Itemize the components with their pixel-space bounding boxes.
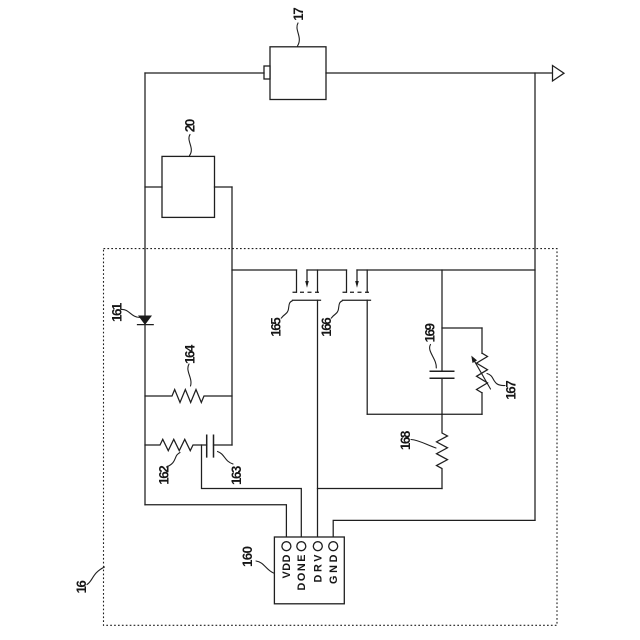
left rail bbox=[144, 73, 146, 505]
box 17 bbox=[264, 47, 326, 100]
svg-text:168: 168 bbox=[398, 430, 413, 450]
svg-text:161: 161 bbox=[109, 302, 124, 322]
label 161 bbox=[109, 302, 140, 322]
wire parallel top bbox=[442, 327, 482, 329]
bus wire segment C bbox=[357, 269, 535, 271]
svg-text:160: 160 bbox=[240, 546, 255, 567]
bus wire segment A bbox=[232, 269, 297, 271]
resistor 162 bbox=[145, 439, 207, 450]
transistor 165 bbox=[293, 270, 321, 300]
IC 160 box bbox=[274, 537, 344, 604]
pin label GND bbox=[328, 554, 340, 584]
label 162 bbox=[156, 453, 180, 485]
wire gate 166 down bbox=[366, 300, 368, 414]
pin label VDD bbox=[281, 554, 293, 578]
wire box 20 right bbox=[215, 186, 233, 188]
svg-text:DRV: DRV bbox=[313, 554, 325, 583]
diode 161 bbox=[138, 316, 154, 325]
label 167 bbox=[487, 374, 518, 400]
svg-text:164: 164 bbox=[182, 344, 197, 364]
svg-text:GND: GND bbox=[328, 554, 340, 584]
svg-text:163: 163 bbox=[229, 465, 244, 485]
output arrow bbox=[553, 66, 565, 82]
svg-text:VDD: VDD bbox=[281, 554, 293, 578]
pin label DRV bbox=[313, 554, 325, 583]
wire gate 165 to DRV bbox=[317, 300, 319, 537]
label 20 bbox=[182, 119, 197, 156]
wire timing node horizontal bbox=[367, 413, 482, 415]
right rail bbox=[534, 73, 536, 520]
label 166 bbox=[319, 301, 342, 337]
svg-text:16: 16 bbox=[74, 580, 89, 594]
bus wire segment B bbox=[307, 269, 347, 271]
label 165 bbox=[269, 301, 293, 337]
svg-text:166: 166 bbox=[319, 317, 334, 337]
box 20 bbox=[162, 156, 215, 217]
transistor 166 bbox=[343, 270, 371, 300]
svg-text:167: 167 bbox=[503, 380, 518, 400]
wire top-left to box 17 bbox=[145, 72, 264, 74]
dashed enclosure box 16 bbox=[104, 249, 558, 626]
pin label DONE bbox=[296, 555, 308, 591]
rail from box 20 down bbox=[231, 187, 233, 445]
label 169 bbox=[422, 323, 437, 368]
label 163 bbox=[218, 452, 244, 486]
variable resistor 167 bbox=[471, 328, 490, 414]
capacitor 169 bbox=[430, 371, 455, 378]
svg-text:20: 20 bbox=[182, 119, 197, 133]
label 164 bbox=[182, 344, 197, 386]
resistor 164 bbox=[145, 390, 232, 403]
svg-text:162: 162 bbox=[156, 465, 171, 485]
wire junction 162/163 down to DONE bbox=[202, 445, 302, 537]
wire cap 169 branch bbox=[441, 270, 443, 414]
resistor 168 bbox=[437, 414, 448, 488]
wire VDD bbox=[145, 505, 286, 537]
label 168 bbox=[398, 430, 436, 450]
svg-text:165: 165 bbox=[269, 317, 284, 337]
IC 160 pin circles bbox=[282, 542, 338, 551]
label 17 bbox=[291, 7, 306, 46]
wire 168 bottom to DRV lead bbox=[318, 488, 443, 490]
wire box 17 to output bbox=[326, 72, 552, 74]
label 16 bbox=[74, 567, 105, 594]
svg-text:17: 17 bbox=[291, 7, 306, 21]
wire GND bbox=[333, 520, 535, 537]
wire box 20 left bbox=[145, 186, 162, 188]
capacitor 163 bbox=[207, 435, 232, 458]
label 160 bbox=[240, 546, 273, 573]
svg-text:169: 169 bbox=[422, 323, 437, 343]
